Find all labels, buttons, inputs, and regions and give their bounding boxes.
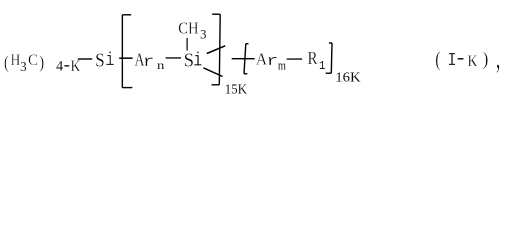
svg-text:H: H xyxy=(11,52,21,69)
upper diagonal bond from Si crossing bracket xyxy=(207,46,225,54)
svg-text:r: r xyxy=(266,53,278,70)
svg-text:3: 3 xyxy=(200,26,206,41)
svg-text:,: , xyxy=(496,39,500,75)
svg-text:S: S xyxy=(95,49,105,70)
bond CH3 to Si vertical xyxy=(187,38,188,51)
closing bracket of 16K repeat unit xyxy=(326,43,332,73)
opening bracket of 15K repeat unit xyxy=(122,15,132,88)
bond Si into bracket crossing xyxy=(119,57,132,59)
svg-text:S: S xyxy=(184,50,194,71)
svg-text:(: ( xyxy=(435,48,440,72)
svg-text:i: i xyxy=(193,51,202,72)
svg-text:4: 4 xyxy=(56,59,63,75)
svg-text:1: 1 xyxy=(319,61,326,74)
bond Ar_n to Si xyxy=(166,57,181,58)
lower diagonal bond from Si crossing bracket xyxy=(203,68,222,77)
bond (H3C)4-K to Si xyxy=(78,58,92,59)
opening bracket of 16K repeat unit xyxy=(244,44,249,74)
hyphen of I-K xyxy=(458,58,464,59)
svg-text:r: r xyxy=(143,54,155,71)
svg-text:): ) xyxy=(483,48,489,70)
svg-text:15K: 15K xyxy=(225,81,248,96)
svg-text:): ) xyxy=(39,52,44,73)
svg-text:i: i xyxy=(105,51,114,71)
svg-text:К: К xyxy=(467,54,478,70)
chemical formula (I-K): (H3C)4-K Si [ Ar_n Si(CH3)< ]15K [ Ar_m R1 ]16K xyxy=(0,0,506,104)
svg-text:16K: 16K xyxy=(335,70,361,86)
closing bracket of 15K repeat unit xyxy=(212,14,221,85)
svg-text:n: n xyxy=(157,59,165,72)
bond Ar_m to R1 xyxy=(287,58,302,59)
svg-text:R: R xyxy=(308,48,318,69)
svg-text:I: I xyxy=(447,51,456,72)
bond between bracket groups xyxy=(232,58,255,59)
svg-text:(: ( xyxy=(4,52,9,72)
svg-text:К: К xyxy=(70,58,81,76)
svg-text:C: C xyxy=(28,52,38,69)
hyphen in 4-K subscript xyxy=(64,65,69,66)
svg-text:CH: CH xyxy=(178,19,199,37)
svg-text:3: 3 xyxy=(20,58,27,74)
svg-text:m: m xyxy=(278,58,286,72)
